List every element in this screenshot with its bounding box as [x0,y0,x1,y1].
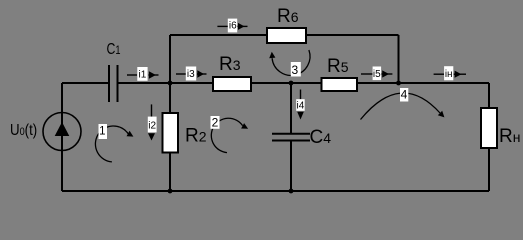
svg-text:2: 2 [212,115,219,129]
svg-text:i6: i6 [229,21,237,32]
svg-text:R3: R3 [219,54,241,75]
svg-text:C1: C1 [107,41,121,58]
svg-text:R2: R2 [185,126,207,147]
svg-text:U0(t): U0(t) [10,122,37,139]
svg-text:R6: R6 [277,6,299,27]
svg-text:i1: i1 [139,70,147,81]
svg-text:iн: iн [445,69,453,80]
svg-text:1: 1 [99,126,105,138]
svg-text:i3: i3 [187,69,195,80]
svg-text:4: 4 [401,88,408,102]
svg-text:Rн: Rн [499,126,520,147]
svg-text:R5: R5 [327,56,349,77]
svg-text:i2: i2 [148,121,156,132]
svg-text:C4: C4 [310,127,332,148]
svg-text:3: 3 [291,63,298,77]
svg-text:i4: i4 [297,101,305,112]
svg-text:i5: i5 [373,69,381,80]
